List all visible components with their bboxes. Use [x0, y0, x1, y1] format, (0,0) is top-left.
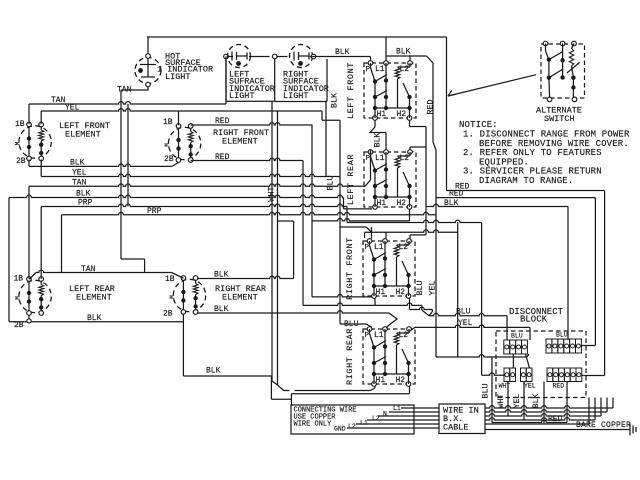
- svg-text:P: P: [366, 155, 371, 163]
- svg-text:BLU: BLU: [415, 280, 425, 295]
- svg-text:H1: H1: [377, 199, 387, 208]
- svg-text:RED: RED: [215, 153, 230, 162]
- svg-text:BLK: BLK: [214, 271, 229, 280]
- svg-text:H2: H2: [397, 199, 407, 208]
- svg-text:BLK: BLK: [206, 367, 221, 376]
- svg-text:WIRE ONLY: WIRE ONLY: [294, 421, 333, 429]
- svg-text:YEL: YEL: [458, 319, 473, 328]
- svg-text:BLU: BLU: [511, 333, 523, 340]
- svg-text:2B: 2B: [16, 157, 26, 166]
- svg-text:LEFT FRONT: LEFT FRONT: [346, 62, 356, 119]
- svg-text:L2: L2: [399, 331, 409, 340]
- svg-text:GND: GND: [334, 426, 346, 433]
- svg-text:RED: RED: [455, 183, 470, 192]
- svg-text:L2: L2: [400, 65, 410, 74]
- svg-text:2B: 2B: [163, 310, 173, 319]
- svg-text:H1: H1: [376, 376, 386, 385]
- svg-text:L1: L1: [375, 154, 385, 163]
- svg-text:H2: H2: [396, 288, 406, 297]
- svg-text:YEL: YEL: [72, 169, 87, 178]
- svg-text:RIGHT FRONT: RIGHT FRONT: [345, 237, 355, 300]
- svg-text:H1: H1: [377, 110, 387, 119]
- svg-text:RED: RED: [215, 117, 230, 126]
- svg-text:BLU: BLU: [556, 332, 568, 339]
- svg-text:L1: L1: [374, 331, 384, 340]
- svg-text:LIGHT: LIGHT: [283, 91, 309, 101]
- svg-text:BLK: BLK: [532, 394, 541, 409]
- svg-text:2B: 2B: [164, 155, 174, 164]
- svg-text:BLK: BLK: [335, 48, 350, 57]
- svg-text:BLK: BLK: [87, 314, 102, 323]
- svg-text:BLK: BLK: [374, 133, 383, 148]
- svg-text:P: P: [365, 332, 370, 340]
- svg-text:BLU: BLU: [481, 383, 491, 398]
- svg-text:LEFT REAR: LEFT REAR: [346, 154, 356, 205]
- svg-text:2B: 2B: [14, 321, 24, 330]
- svg-text:1B: 1B: [163, 118, 173, 127]
- svg-text:BLK: BLK: [330, 92, 340, 108]
- svg-text:H2: H2: [397, 110, 407, 119]
- svg-text:SWITCH: SWITCH: [544, 114, 575, 124]
- svg-text:H2: H2: [396, 376, 406, 385]
- svg-text:YEL: YEL: [524, 383, 536, 390]
- svg-text:L2: L2: [400, 154, 410, 163]
- svg-text:BLK: BLK: [70, 159, 85, 168]
- svg-text:ELEMENT: ELEMENT: [222, 293, 258, 303]
- svg-text:M: M: [15, 141, 22, 145]
- svg-text:TAN: TAN: [51, 96, 66, 105]
- svg-text:YEL: YEL: [428, 280, 438, 295]
- svg-text:PRP: PRP: [78, 199, 93, 208]
- svg-text:YEL: YEL: [513, 394, 522, 409]
- svg-text:P: P: [366, 66, 371, 74]
- svg-text:1B: 1B: [165, 275, 175, 284]
- svg-text:1B: 1B: [15, 120, 25, 129]
- svg-text:BARE COPPER: BARE COPPER: [576, 421, 631, 430]
- svg-text:PRP: PRP: [147, 207, 162, 216]
- svg-text:WHT: WHT: [267, 186, 277, 201]
- svg-text:BLK: BLK: [396, 48, 411, 57]
- svg-text:M: M: [169, 295, 176, 299]
- svg-text:L1: L1: [393, 405, 401, 412]
- svg-text:RED: RED: [426, 99, 436, 114]
- svg-text:CABLE: CABLE: [443, 423, 469, 433]
- svg-text:ELEMENT: ELEMENT: [222, 137, 258, 147]
- svg-text:TAN: TAN: [72, 179, 87, 188]
- svg-text:BLU: BLU: [344, 320, 359, 329]
- svg-text:WHT: WHT: [497, 394, 506, 409]
- svg-text:YEL: YEL: [65, 104, 80, 113]
- svg-text:LIGHT: LIGHT: [165, 72, 191, 82]
- svg-text:BLOCK: BLOCK: [520, 315, 548, 325]
- svg-text:RIGHT REAR: RIGHT REAR: [345, 328, 355, 385]
- svg-text:TAN: TAN: [81, 265, 96, 274]
- svg-text:ELEMENT: ELEMENT: [65, 130, 101, 140]
- svg-text:L2: L2: [399, 243, 409, 252]
- svg-text:TAN: TAN: [117, 86, 132, 95]
- svg-text:NOTICE:: NOTICE:: [459, 120, 498, 130]
- svg-text:H1: H1: [376, 288, 386, 297]
- svg-text:L1: L1: [375, 65, 385, 74]
- svg-text:BLK: BLK: [76, 190, 91, 199]
- svg-text:BLK: BLK: [214, 305, 229, 314]
- svg-text:L1: L1: [360, 420, 368, 427]
- svg-text:L1: L1: [374, 243, 384, 252]
- svg-text:RED: RED: [553, 383, 565, 390]
- svg-text:M: M: [164, 143, 171, 147]
- svg-text:LIGHT: LIGHT: [229, 91, 255, 101]
- svg-text:1B: 1B: [14, 275, 24, 284]
- svg-text:ELEMENT: ELEMENT: [76, 293, 112, 303]
- svg-text:DIAGRAM TO RANGE.: DIAGRAM TO RANGE.: [479, 176, 573, 186]
- svg-text:M: M: [15, 296, 22, 300]
- svg-text:P: P: [365, 244, 370, 252]
- svg-text:L2: L2: [348, 423, 356, 430]
- svg-text:BLU: BLU: [326, 175, 336, 190]
